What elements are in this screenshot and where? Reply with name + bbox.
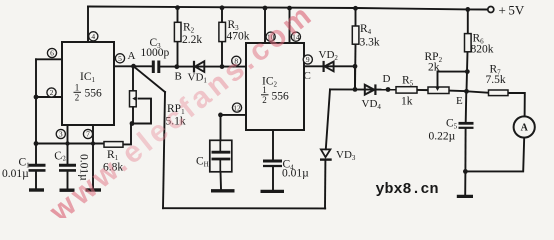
wire VD3 branch top xyxy=(326,89,330,149)
node E xyxy=(464,89,469,94)
wire R5 to RP2 xyxy=(417,89,428,91)
wire E down through C5 xyxy=(465,91,468,122)
potentiometer RP2 wiper arrow xyxy=(435,87,440,91)
wire IC1 pin6 lead xyxy=(36,58,62,60)
wire IC2 pin12 lead xyxy=(221,114,247,116)
node A xyxy=(131,64,136,69)
svg-text:0.01µ: 0.01µ xyxy=(2,168,29,180)
junction pin7/ground bus xyxy=(91,141,95,145)
resistor R3 xyxy=(219,22,226,41)
pin 12 xyxy=(232,103,241,112)
ammeter A xyxy=(514,116,535,137)
pin 4 xyxy=(89,32,98,41)
resistor R4 xyxy=(352,26,359,44)
svg-text:820k: 820k xyxy=(471,44,494,56)
svg-text:5: 5 xyxy=(118,54,122,63)
ground right under C5 node xyxy=(457,195,473,198)
junction rail/R4 xyxy=(353,6,358,11)
wire R1 right lead up to RP1 bottom xyxy=(123,124,131,145)
wire RP1 top lead from node A xyxy=(132,66,134,91)
wire CH top lead xyxy=(220,115,222,140)
svg-text:556: 556 xyxy=(272,91,290,103)
wire R6 branch xyxy=(467,9,469,33)
label IC2 xyxy=(261,76,289,106)
svg-text:A: A xyxy=(128,50,136,62)
wire C1 lower lead xyxy=(35,171,37,189)
wire IC1 pin4 lead xyxy=(87,7,89,43)
pin 5 xyxy=(115,54,124,63)
svg-text:+ 5V: + 5V xyxy=(499,3,525,18)
junction pin2/C1 line xyxy=(34,95,39,100)
potentiometer RP1 body xyxy=(130,91,137,107)
wire ammeter bottom to C5 junction xyxy=(465,138,524,172)
wire bottom feedback rail xyxy=(163,207,325,209)
wire C4 top lead xyxy=(272,130,274,160)
wire RP2 wiper to R6 line xyxy=(438,72,468,87)
ground under C4 xyxy=(261,190,285,193)
capacitor C5 xyxy=(459,123,474,128)
resistor R6 xyxy=(465,34,472,52)
svg-text:7.5k: 7.5k xyxy=(486,74,506,86)
svg-text:556: 556 xyxy=(85,88,103,100)
wire RP1 bottom lead xyxy=(132,107,134,124)
wire IC2 pin9 to VD2 to R4 line xyxy=(304,65,355,67)
wire R3 branch rail to wire xyxy=(221,8,223,22)
pin 2 xyxy=(47,88,56,97)
pin 8 xyxy=(232,56,241,65)
wire left vertical to C1 xyxy=(35,59,37,164)
wire C5 junction to ground xyxy=(464,171,466,195)
junction C1/ground bus xyxy=(34,141,39,146)
wire IC1 pin7 lead to ground xyxy=(92,125,94,188)
svg-text:2: 2 xyxy=(262,95,267,105)
IC1 U1 box xyxy=(62,42,114,125)
svg-text:12: 12 xyxy=(233,103,241,112)
wire RP2 to E xyxy=(449,90,467,93)
wire ground bus y=143.5 xyxy=(36,143,104,145)
ground under C2 xyxy=(60,188,75,191)
ground under CH xyxy=(211,189,235,192)
capacitor C1 xyxy=(29,165,46,170)
pin 3 xyxy=(56,129,65,138)
junction R3/pin8 wire xyxy=(220,64,225,69)
wire IC1 pin5 to node A to C3 xyxy=(114,65,152,67)
svg-text:3.3k: 3.3k xyxy=(360,37,380,49)
junction C5/ammeter return xyxy=(463,169,468,174)
svg-text:ybx8.cn: ybx8.cn xyxy=(376,181,439,198)
svg-text:E: E xyxy=(456,95,463,107)
svg-text:D: D xyxy=(383,73,391,85)
wire IC2 pin10 lead xyxy=(264,8,266,43)
capacitor C3 xyxy=(153,61,159,74)
svg-text:2: 2 xyxy=(75,93,80,103)
wire R2 branch rail to node B xyxy=(177,8,179,22)
pin 10 xyxy=(266,32,275,41)
svg-text:1: 1 xyxy=(75,83,80,93)
svg-text:A: A xyxy=(521,123,529,134)
wire R7 to ammeter corner xyxy=(508,93,525,116)
svg-text:3: 3 xyxy=(59,130,63,139)
junction pin3/ground bus xyxy=(65,141,69,145)
junction R4/VD4 wire xyxy=(353,87,358,92)
node D xyxy=(386,87,391,92)
humidity sensor capacitor CH xyxy=(210,140,232,172)
svg-text:1k: 1k xyxy=(401,96,413,108)
svg-text:7: 7 xyxy=(86,130,90,139)
wire C2 lower lead xyxy=(67,171,69,189)
svg-text:9: 9 xyxy=(306,55,310,64)
wire feedback vertical xyxy=(163,92,165,208)
IC2 U2 box xyxy=(246,43,304,130)
wire C4 bottom lead xyxy=(272,167,274,190)
junction pin12/CH xyxy=(218,113,223,118)
potentiometer RP1 wiper arrow xyxy=(132,96,136,101)
capacitor C4 xyxy=(263,161,282,166)
+5V supply terminal xyxy=(488,7,494,13)
junction rail/R2 xyxy=(175,5,180,10)
wire VD2 junction down xyxy=(354,66,356,89)
diode VD1 xyxy=(194,61,204,73)
node B xyxy=(174,64,179,69)
junction rail/R6 xyxy=(465,7,470,12)
diode VD3 xyxy=(320,149,332,159)
svg-text:6: 6 xyxy=(50,49,54,58)
diode VD4 xyxy=(365,84,376,95)
wire C3 right to IC2 pin8 xyxy=(160,66,246,68)
svg-text:1: 1 xyxy=(262,85,267,95)
resistor R7 xyxy=(489,90,509,96)
junction rail/pin14 xyxy=(287,6,292,11)
junction RP2 wiper/R6 line xyxy=(465,69,470,74)
wire E to R7 xyxy=(467,91,489,93)
potentiometer RP2 body xyxy=(428,87,449,94)
capacitor C2 xyxy=(59,165,76,170)
resistor R5 xyxy=(396,87,417,93)
resistor R2 xyxy=(174,22,181,41)
wire diagonal from node A xyxy=(134,66,166,92)
svg-text:2: 2 xyxy=(50,88,54,97)
junction rail/pin10 xyxy=(263,6,268,11)
junction rail/R3 xyxy=(220,5,225,10)
svg-text:B: B xyxy=(175,71,182,83)
wire IC2 pin14 lead xyxy=(289,8,291,43)
wire VD4 row left segment xyxy=(330,88,396,90)
svg-text:0.01µ: 0.01µ xyxy=(282,168,309,180)
wire RP1 wiper loop xyxy=(131,99,151,124)
label IC1 xyxy=(74,71,103,103)
wire IC1 pin3 lead down through C2 xyxy=(67,125,69,164)
resistor R1 xyxy=(104,142,123,148)
svg-text:2.2k: 2.2k xyxy=(182,34,202,46)
svg-text:2k: 2k xyxy=(428,62,440,74)
svg-text:0.22µ: 0.22µ xyxy=(429,131,456,143)
pin 9 xyxy=(303,55,312,64)
wire IC1 pin2 lead xyxy=(36,96,62,98)
svg-text:4: 4 xyxy=(91,32,95,41)
svg-text:C: C xyxy=(304,70,311,82)
diode VD2 xyxy=(324,61,334,72)
junction RP1 bottom/R1 xyxy=(130,121,135,126)
wire top +5V rail xyxy=(88,7,488,10)
junction VD2/R4 xyxy=(353,64,358,69)
wire CH bottom lead xyxy=(220,172,223,189)
wire VD3 to bottom rail xyxy=(324,160,326,208)
pin 14 xyxy=(291,32,300,41)
pin 7 xyxy=(83,129,92,138)
ground under pin7 xyxy=(86,188,102,191)
pin 6 xyxy=(47,48,56,57)
wire R4 branch xyxy=(355,8,357,26)
svg-text:1000p: 1000p xyxy=(141,47,170,59)
ground under C1 xyxy=(29,188,44,191)
